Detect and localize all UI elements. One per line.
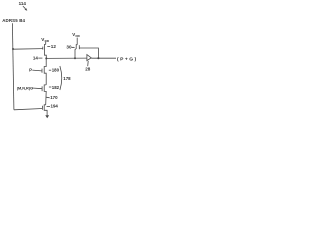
gate lead P bbox=[32, 69, 42, 72]
inverter U28 bbox=[87, 55, 91, 61]
label 194 bbox=[47, 105, 50, 107]
svg-text:178: 178 bbox=[63, 76, 71, 81]
node 14 bbox=[45, 57, 47, 59]
label 28 bbox=[87, 61, 90, 66]
label 170 (wire leader) bbox=[46, 96, 50, 99]
svg-text:182: 182 bbox=[52, 85, 60, 90]
transistor Q180 bbox=[44, 58, 46, 85]
junction dot (Q30 drain on input line) bbox=[74, 57, 76, 59]
label 182 bbox=[49, 86, 51, 88]
leader arrow for 114 bbox=[23, 6, 26, 9]
transistor Q12 bbox=[45, 44, 47, 58]
svg-text:180: 180 bbox=[52, 67, 60, 72]
wire: inverter output bbox=[91, 57, 116, 59]
signal name text (top-left) bbox=[2, 18, 25, 23]
svg-text:28: 28 bbox=[85, 66, 91, 71]
wire: node 14 to inverter input bbox=[46, 57, 87, 59]
label 30 bbox=[66, 44, 72, 49]
brace for group 178 bbox=[60, 66, 62, 90]
svg-text:30: 30 bbox=[66, 44, 72, 49]
svg-text:194: 194 bbox=[51, 103, 59, 108]
junction dot at output node bbox=[97, 57, 99, 59]
svg-text:ADRS5 B4: ADRS5 B4 bbox=[2, 18, 25, 23]
svg-text:DD: DD bbox=[76, 34, 81, 38]
ground bbox=[45, 115, 49, 118]
wire: VDD to Q12 drain bbox=[45, 41, 47, 44]
junction dot on rail bbox=[12, 48, 14, 50]
wire: left vertical rail bbox=[12, 23, 14, 110]
wire: rail bottom to gate of Q194 bbox=[14, 109, 43, 110]
svg-text:(M,N,R)G: (M,N,R)G bbox=[17, 85, 33, 90]
transistor Q30 (keeper, gate on right) bbox=[75, 45, 77, 59]
wire: VDD to Q30 bbox=[76, 38, 78, 45]
label 180 bbox=[49, 69, 51, 71]
VDD (right) bbox=[72, 32, 80, 38]
VDD (left) bbox=[41, 37, 50, 43]
svg-text:(P+G): (P+G) bbox=[117, 56, 138, 62]
gate lead (M,N,R)G bbox=[32, 87, 42, 90]
svg-text:170: 170 bbox=[50, 95, 58, 100]
svg-text:P: P bbox=[29, 67, 32, 72]
wire: Q30 gate to output node bbox=[79, 48, 98, 58]
svg-text:12: 12 bbox=[51, 44, 57, 49]
output label (P+G) bbox=[117, 56, 138, 62]
svg-text:114: 114 bbox=[19, 1, 27, 6]
transistor Q182 bbox=[44, 85, 46, 105]
svg-text:14: 14 bbox=[33, 55, 39, 60]
label 12 bbox=[47, 45, 50, 47]
wire: rail to gate of Q12 bbox=[13, 48, 43, 51]
figure callout 114 bbox=[19, 1, 27, 6]
transistor Q194 bbox=[44, 105, 47, 116]
